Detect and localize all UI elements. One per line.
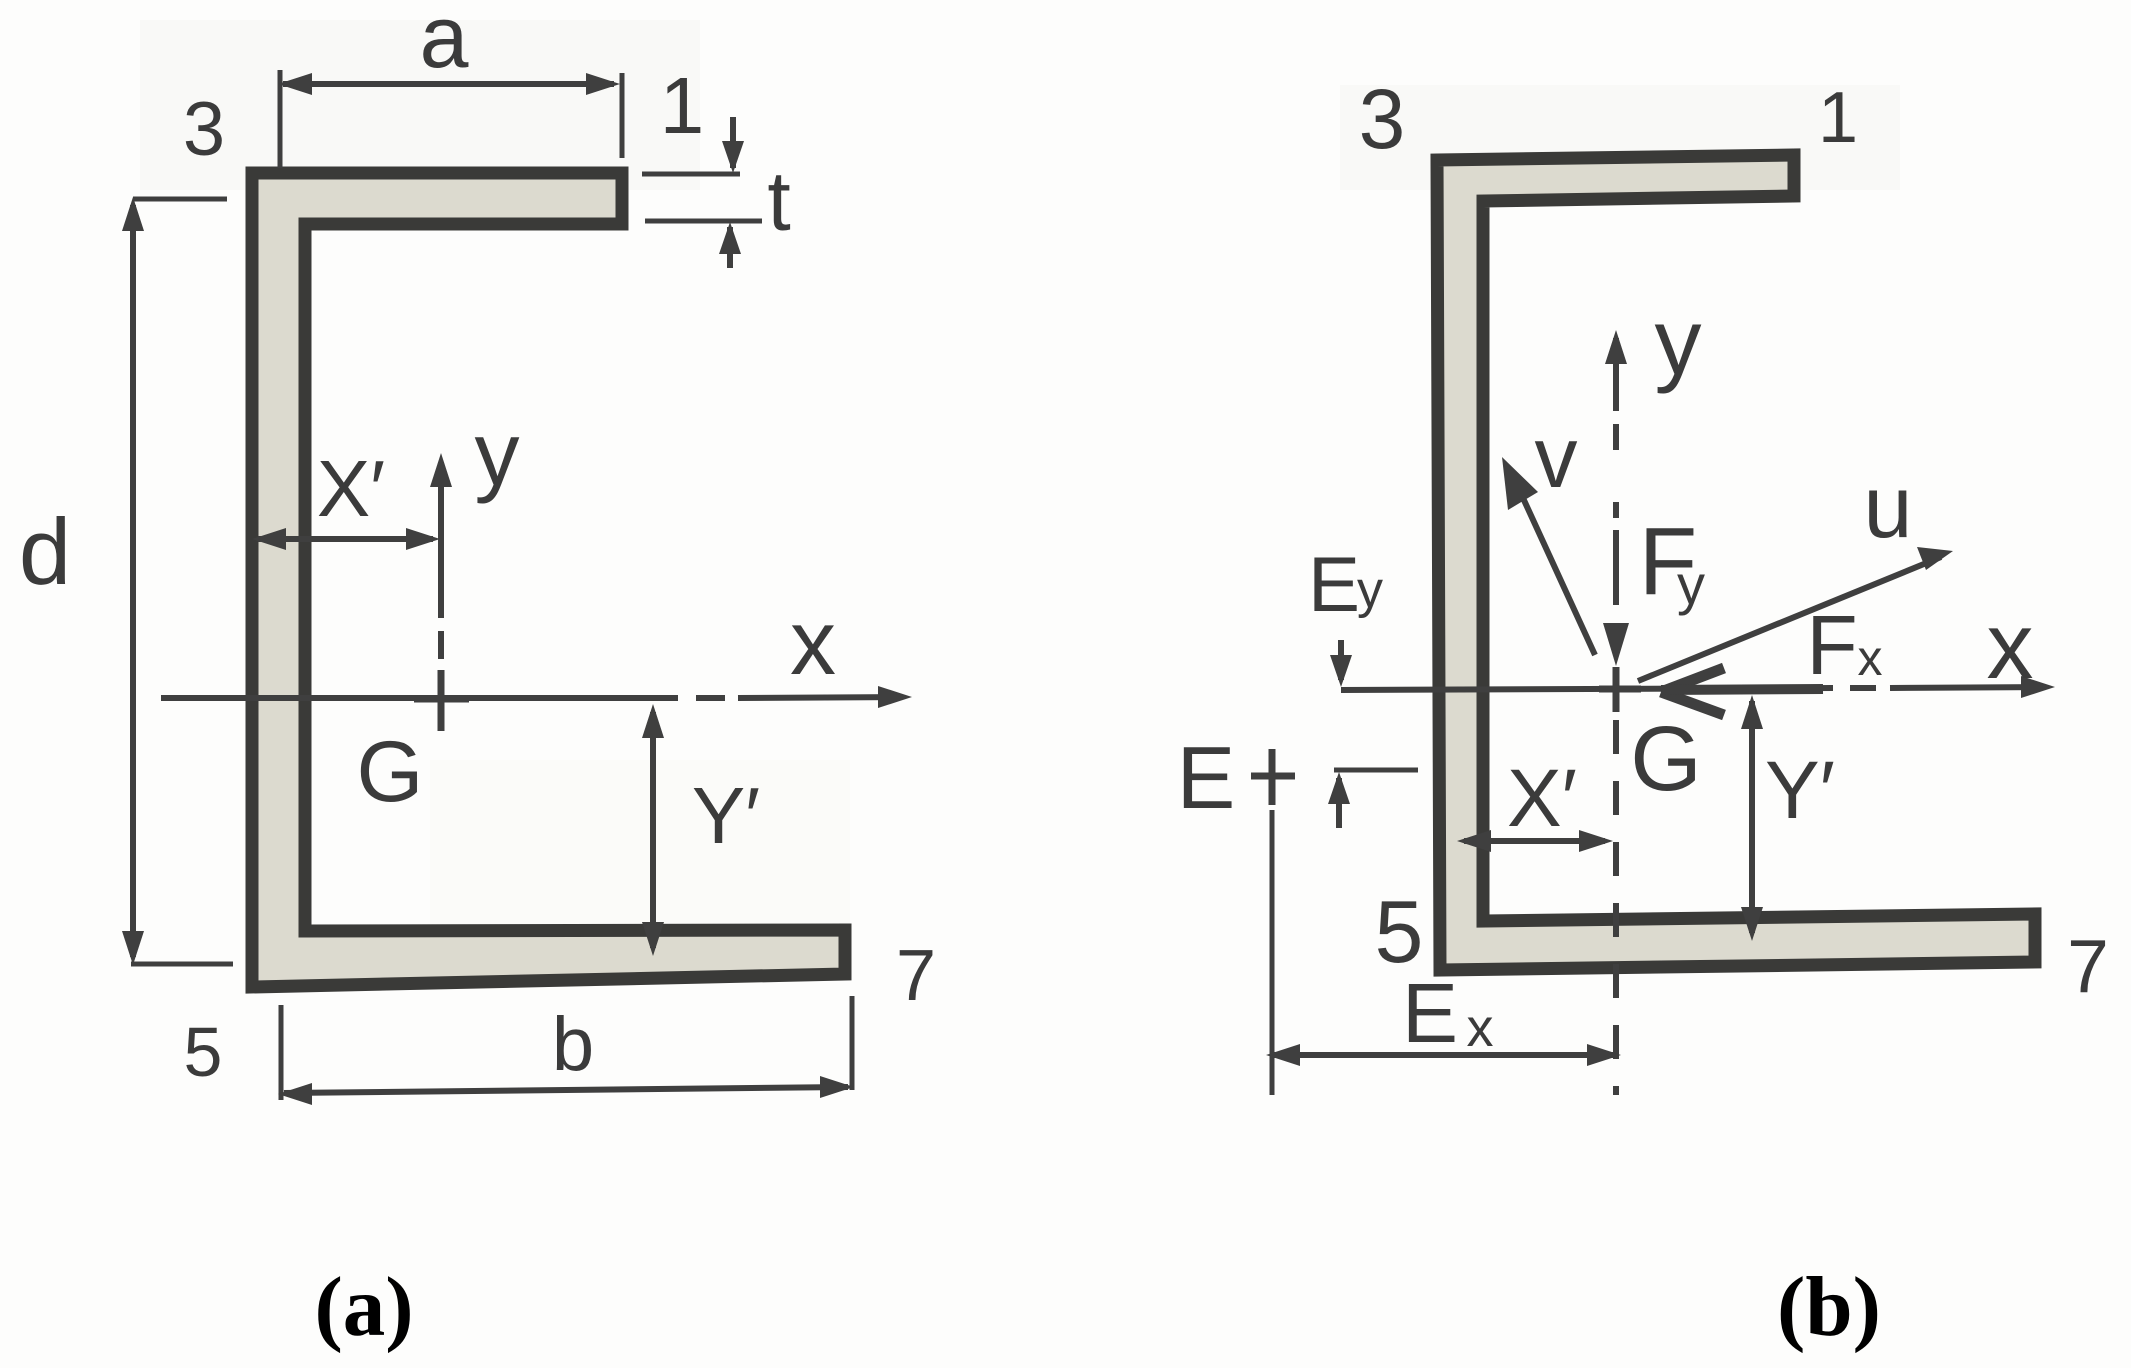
- svg-text:Y′: Y′: [692, 771, 760, 860]
- Ey dimension arrows: [1328, 640, 1352, 828]
- svg-text:u: u: [1864, 457, 1913, 556]
- svg-text:X′: X′: [1507, 753, 1577, 844]
- svg-text:x: x: [1467, 998, 1494, 1058]
- svg-text:y: y: [1655, 289, 1702, 394]
- svg-text:F: F: [1806, 598, 1857, 692]
- svg-text:1: 1: [1818, 78, 1858, 158]
- dimension d: line with arrows: [122, 197, 233, 965]
- dimension b: line with arrows: [278, 1076, 854, 1105]
- svg-text:7: 7: [896, 936, 936, 1016]
- svg-text:y: y: [1357, 561, 1383, 619]
- channel section (b): [1437, 155, 2035, 970]
- u arrow: [1638, 547, 1953, 681]
- dimension t: ticks: [642, 174, 762, 221]
- svg-text:E: E: [1308, 540, 1360, 628]
- dimension a: extension lines: [280, 70, 622, 168]
- channel section (a): [252, 173, 845, 987]
- svg-text:x: x: [1858, 630, 1883, 686]
- dimension b: extension lines: [281, 996, 852, 1100]
- svg-text:Y′: Y′: [1765, 745, 1835, 836]
- svg-text:7: 7: [2067, 924, 2109, 1008]
- svg-text:5: 5: [184, 1013, 223, 1091]
- svg-text:1: 1: [660, 61, 705, 150]
- svg-text:y: y: [1677, 553, 1705, 616]
- dimension X' (a): [252, 528, 440, 550]
- E level tick line: [1334, 768, 1418, 773]
- svg-text:d: d: [19, 499, 71, 604]
- dimension a: line with arrows: [278, 73, 620, 95]
- centroid G mark (b): [1599, 667, 1641, 712]
- svg-text:3: 3: [183, 87, 225, 172]
- shear centre E mark: [1251, 749, 1295, 805]
- Fx shaft (heavy segment on x axis): [1661, 689, 1823, 690]
- svg-text:a: a: [420, 0, 469, 86]
- Ex extension line (from E down): [1270, 810, 1275, 1095]
- dimension Y' (a): [642, 704, 664, 956]
- v arrow: [1502, 457, 1595, 655]
- Fy force arrowhead on y axis: [1603, 623, 1629, 666]
- y axis dashed part below G: [1613, 720, 1619, 1095]
- svg-text:(b): (b): [1777, 1260, 1881, 1354]
- y axis (b): [1613, 338, 1619, 605]
- svg-text:y: y: [475, 405, 520, 505]
- y axis (a): [438, 462, 444, 659]
- svg-text:G: G: [1630, 708, 1702, 810]
- x axis (b): [1341, 687, 2044, 690]
- dimension t: arrows: [719, 117, 744, 268]
- svg-text:(a): (a): [314, 1260, 413, 1354]
- svg-text:G: G: [357, 724, 424, 820]
- centroid G mark (a): [414, 670, 469, 731]
- svg-text:X′: X′: [317, 444, 385, 533]
- dimension X' (b): [1457, 830, 1613, 852]
- svg-text:x: x: [1987, 593, 2034, 698]
- x axis (a): [161, 697, 901, 698]
- svg-text:t: t: [767, 154, 790, 248]
- dimension Y' (b): [1741, 695, 1763, 941]
- svg-text:E: E: [1177, 728, 1236, 827]
- svg-text:x: x: [790, 592, 836, 694]
- Fx arrow (open chevron pointing left at G): [1661, 668, 1724, 715]
- dimension Ex: [1266, 1044, 1621, 1066]
- svg-text:v: v: [1535, 410, 1578, 506]
- svg-text:b: b: [552, 1002, 594, 1087]
- svg-text:3: 3: [1359, 72, 1406, 166]
- svg-text:E: E: [1402, 966, 1458, 1060]
